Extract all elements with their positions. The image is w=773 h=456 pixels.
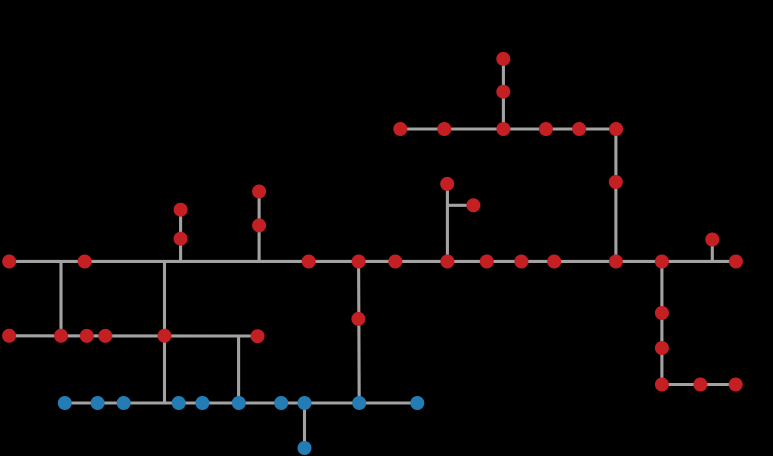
node R2 <box>78 255 92 269</box>
node R6 <box>440 255 454 269</box>
node R7 <box>480 255 494 269</box>
wire branch of stub C <box>447 204 473 207</box>
node T1 top of stub above U3 <box>496 52 510 66</box>
wire left vertical drop short <box>59 261 62 335</box>
node P11 below blue row <box>298 441 312 455</box>
node B1 stub B top <box>252 185 266 199</box>
node C1 stub C top <box>440 177 454 191</box>
node A2 stub A lower <box>174 232 188 246</box>
node U4 <box>539 122 553 136</box>
node R4 <box>352 255 366 269</box>
node L2 second row <box>54 329 68 343</box>
node V2 right vertical <box>655 341 669 355</box>
node L4 second row <box>98 329 112 343</box>
node P10 blue row right end <box>410 396 424 410</box>
node P6 blue row <box>232 396 246 410</box>
node V3 right vertical bottom corner <box>655 378 669 392</box>
node R1 <box>2 255 16 269</box>
wire left vertical drop long <box>163 261 166 403</box>
wire stub above node U3 <box>502 59 505 129</box>
node P1 blue row <box>58 396 72 410</box>
wire stub A above main <box>179 210 182 262</box>
node P4 blue row <box>172 396 186 410</box>
node W2 bottom right horizontal end <box>729 378 743 392</box>
wire stub above main right <box>711 240 714 262</box>
node L3 second row <box>80 329 94 343</box>
wire upper lateral horizontal <box>400 127 616 130</box>
node P3 blue row <box>117 396 131 410</box>
node W1 bottom right horizontal <box>693 378 707 392</box>
node A1 stub A top <box>174 203 188 217</box>
node U3 <box>496 122 510 136</box>
wire vertical linking upper lateral to main <box>614 129 617 261</box>
node M2 on mid vertical <box>351 312 365 326</box>
node M1 on vertical between upper lateral and main <box>609 175 623 189</box>
wire main feeder horizontal <box>9 260 736 263</box>
wire stub below blue row <box>303 403 306 448</box>
node U5 <box>572 122 586 136</box>
node T2 middle of stub above U3 <box>496 85 510 99</box>
node S1 stub above main right <box>705 233 719 247</box>
node P9 blue row <box>352 396 366 410</box>
wire second row horizontal <box>9 334 258 337</box>
wire stub B above main <box>258 192 261 262</box>
node L1 second row left end <box>2 329 16 343</box>
node R12 <box>729 255 743 269</box>
node U1 <box>393 122 407 136</box>
node U2 <box>437 122 451 136</box>
node P8 blue row <box>298 396 312 410</box>
node R5 <box>388 255 402 269</box>
node L6 second row right end <box>251 329 265 343</box>
node P5 blue row <box>195 396 209 410</box>
node R11 <box>655 255 669 269</box>
wire right vertical drop <box>660 261 663 384</box>
node P2 blue row <box>91 396 105 410</box>
node V1 right vertical <box>655 306 669 320</box>
node R9 <box>547 255 561 269</box>
node C2 stub C branch end <box>466 198 480 212</box>
node R3 <box>302 255 316 269</box>
node P7 blue row <box>274 396 288 410</box>
node R10 <box>609 255 623 269</box>
wire mid vertical main to blue row <box>357 261 361 403</box>
node B2 stub B lower <box>252 218 266 232</box>
wire stub C above main <box>446 184 449 262</box>
node R8 <box>514 255 528 269</box>
wire blue row horizontal <box>65 401 418 404</box>
wire bottom right horizontal <box>662 383 736 386</box>
node L5 second row junction <box>158 329 172 343</box>
wire vertical second row to blue row <box>237 336 240 403</box>
node U6 <box>609 122 623 136</box>
